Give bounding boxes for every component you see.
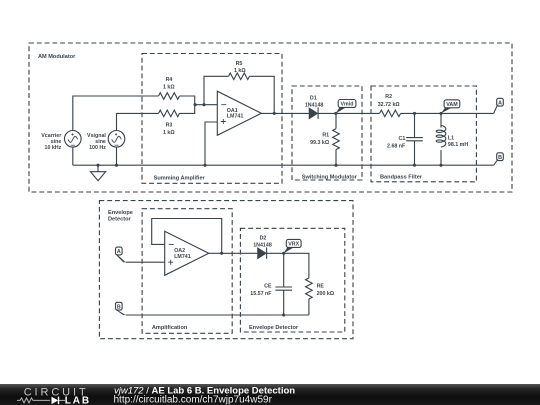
svg-text:10 kHz: 10 kHz bbox=[45, 145, 62, 151]
node dot Vsignal bottom bbox=[115, 164, 118, 167]
wire R3 right bbox=[180, 105, 218, 114]
wire A to OA2 bbox=[126, 261, 165, 263]
wire Vsignal bottom bbox=[116, 147, 118, 165]
flag VAM bbox=[444, 100, 460, 108]
node dot C1 bottom bbox=[413, 164, 416, 167]
diode D2 bbox=[258, 248, 266, 258]
wire OA2 feedback bbox=[152, 219, 222, 254]
wire R2 right to node VAM bbox=[401, 112, 494, 114]
svg-text:VAM: VAM bbox=[446, 102, 458, 108]
capacitor C1 bbox=[406, 113, 423, 165]
svg-text:Vmid: Vmid bbox=[341, 102, 354, 108]
wire R4 right bbox=[180, 96, 195, 105]
flag Vmid bbox=[338, 100, 356, 108]
svg-text:VRX: VRX bbox=[288, 242, 299, 248]
svg-text:2.68 nF: 2.68 nF bbox=[387, 144, 406, 150]
svg-text:100 Hz: 100 Hz bbox=[89, 145, 106, 151]
svg-text:L1: L1 bbox=[448, 135, 454, 141]
wire to flag A top bbox=[494, 106, 497, 113]
enclosure AM Modulator bbox=[29, 43, 512, 192]
node dot OA2 output bbox=[220, 252, 223, 255]
enclosure Envelope Detector outer bbox=[99, 201, 353, 339]
svg-text:Amplification: Amplification bbox=[152, 325, 188, 331]
node dot OA1 output junction bbox=[273, 112, 276, 115]
svg-text:1 kΩ: 1 kΩ bbox=[234, 68, 246, 74]
svg-text:R1: R1 bbox=[322, 133, 329, 139]
enclosure Amplification bbox=[142, 209, 232, 334]
node dot CE bottom bbox=[282, 313, 285, 316]
svg-text:200 kΩ: 200 kΩ bbox=[317, 291, 335, 297]
svg-text:B: B bbox=[498, 155, 502, 161]
svg-text:CE: CE bbox=[264, 284, 272, 290]
logo diode bbox=[52, 397, 59, 405]
svg-text:R4: R4 bbox=[166, 77, 173, 83]
svg-text:R5: R5 bbox=[236, 61, 243, 67]
svg-text:A: A bbox=[117, 249, 121, 255]
node dot R3R4 junction bbox=[194, 103, 197, 106]
svg-text:1 kΩ: 1 kΩ bbox=[163, 130, 175, 136]
wire Vsignal top bbox=[117, 113, 159, 130]
enclosure Bandpass Filter bbox=[371, 86, 476, 182]
flag B top bbox=[497, 153, 504, 161]
svg-text:32.72 kΩ: 32.72 kΩ bbox=[378, 102, 401, 108]
wire R5 right bbox=[250, 76, 275, 113]
svg-text:Envelope Detector: Envelope Detector bbox=[249, 325, 299, 331]
svg-text:Vsignal: Vsignal bbox=[87, 133, 106, 139]
enclosure Envelope Detector inner bbox=[240, 228, 344, 332]
diode D1 bbox=[309, 108, 317, 118]
source Vsignal V2 bbox=[108, 131, 125, 148]
node dot OA1 plus rail bbox=[203, 164, 206, 167]
flag A bottom bbox=[116, 247, 123, 255]
svg-text:RE: RE bbox=[317, 283, 325, 289]
svg-text:http://circuitlab.com/ch7wjp7u: http://circuitlab.com/ch7wjp7u4w59r bbox=[114, 395, 273, 405]
footer bar bbox=[0, 384, 540, 405]
node dot VRX bbox=[282, 252, 285, 255]
svg-text:AM Modulator: AM Modulator bbox=[38, 54, 76, 60]
wire ground rail bbox=[73, 164, 494, 166]
svg-text:Summing Amplifier: Summing Amplifier bbox=[154, 175, 206, 181]
capacitor CE bbox=[275, 253, 292, 315]
wire Vcarrier bottom bbox=[72, 147, 74, 165]
svg-text:Bandpass Filter: Bandpass Filter bbox=[380, 174, 423, 180]
node dot ground junction bbox=[96, 164, 99, 167]
wire B rail bottom bbox=[126, 314, 309, 316]
enclosure Switching Modulator bbox=[292, 86, 362, 180]
node dot Vmid bbox=[334, 112, 337, 115]
svg-text:1N4148: 1N4148 bbox=[305, 102, 324, 108]
inductor L1 bbox=[440, 113, 442, 127]
svg-text:OA2: OA2 bbox=[174, 248, 185, 254]
svg-text:1 kΩ: 1 kΩ bbox=[163, 84, 175, 90]
node dot R5 left junction bbox=[202, 103, 205, 106]
svg-text:B: B bbox=[117, 304, 121, 310]
resistor R1 bbox=[335, 113, 337, 128]
source Vcarrier V1 bbox=[65, 131, 82, 148]
svg-text:Switching Modulator: Switching Modulator bbox=[302, 174, 358, 180]
wire R5 branch left bbox=[204, 76, 229, 104]
svg-text:99.3 kΩ: 99.3 kΩ bbox=[310, 140, 330, 146]
svg-text:98.1 mH: 98.1 mH bbox=[448, 142, 468, 148]
svg-text:Envelope: Envelope bbox=[108, 210, 133, 216]
flag VRX bbox=[286, 239, 301, 247]
svg-text:Detector: Detector bbox=[108, 216, 132, 222]
node dot L1 bottom bbox=[439, 164, 442, 167]
svg-text:R3: R3 bbox=[166, 123, 173, 129]
svg-text:Vcarrier: Vcarrier bbox=[41, 133, 61, 139]
svg-text:LAB: LAB bbox=[65, 396, 91, 405]
wire D1 to node Vmid bbox=[318, 112, 380, 114]
flag A top bbox=[497, 98, 504, 106]
resistor R3 bbox=[159, 110, 180, 117]
logo resistor squiggle bbox=[17, 398, 50, 403]
svg-text:D2: D2 bbox=[260, 235, 267, 241]
resistor RE bbox=[306, 278, 313, 299]
svg-text:LM741: LM741 bbox=[227, 114, 244, 120]
wire RE bottom bbox=[308, 299, 310, 315]
flag B bottom bbox=[116, 302, 123, 310]
svg-text:15.57 nF: 15.57 nF bbox=[250, 291, 272, 297]
node dot C1 top bbox=[413, 112, 416, 115]
svg-text:1N4148: 1N4148 bbox=[253, 242, 272, 248]
svg-text:C1: C1 bbox=[399, 136, 406, 142]
resistor R2 bbox=[380, 110, 401, 117]
wire D2 to node VRX bbox=[267, 253, 309, 278]
enclosure Summing Amplifier bbox=[142, 54, 282, 184]
wire to flag B top bbox=[494, 161, 497, 165]
svg-text:A: A bbox=[498, 100, 502, 106]
op-amp OA1 bbox=[217, 91, 261, 135]
node dot R1 bottom bbox=[334, 164, 337, 167]
wire OA2 output bbox=[209, 252, 258, 254]
node dot L1 top bbox=[439, 112, 442, 115]
wire OA1 +input bbox=[205, 122, 217, 165]
svg-text:LM741: LM741 bbox=[174, 254, 191, 260]
resistor R5 bbox=[229, 73, 250, 80]
wire Vcarrier top bbox=[73, 96, 159, 131]
op-amp OA2 bbox=[165, 231, 209, 275]
resistor R4 bbox=[159, 93, 180, 100]
ground bbox=[91, 165, 106, 181]
wire OA1 output bbox=[261, 112, 309, 114]
svg-text:D1: D1 bbox=[310, 96, 317, 102]
svg-text:R2: R2 bbox=[385, 94, 392, 100]
